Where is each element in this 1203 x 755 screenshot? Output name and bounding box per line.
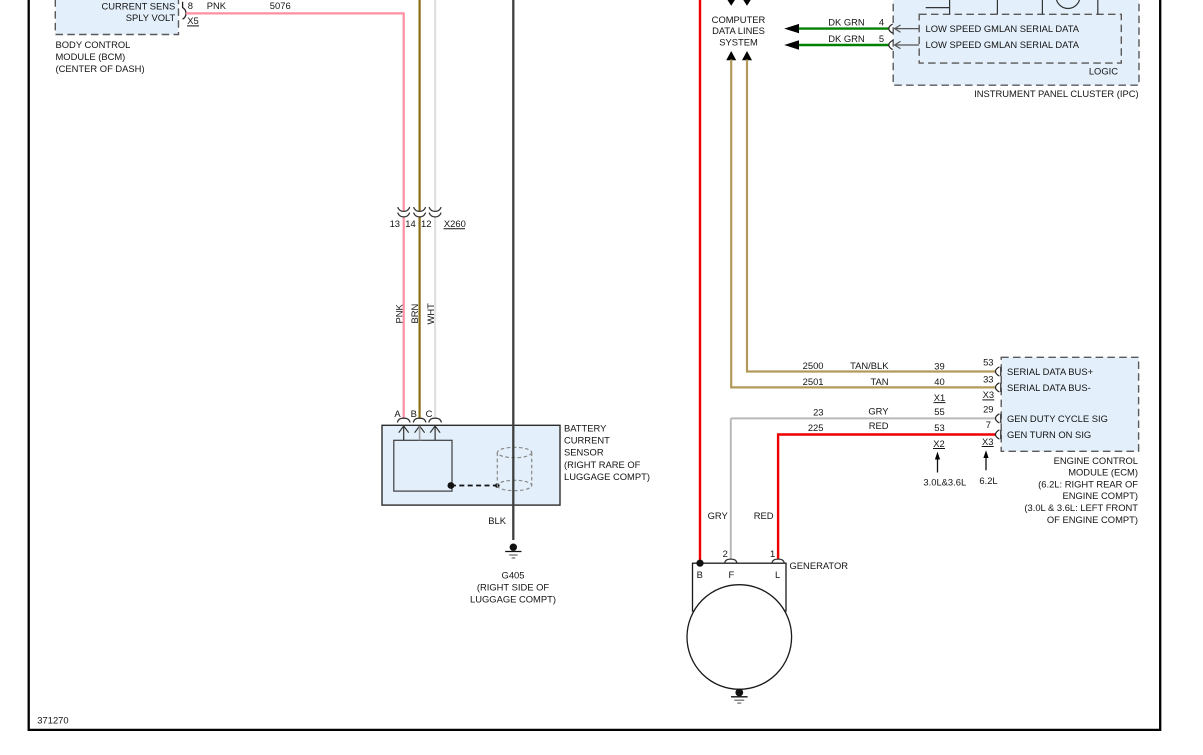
svg-text:7: 7 xyxy=(986,419,991,430)
svg-text:SERIAL DATA BUS+: SERIAL DATA BUS+ xyxy=(1007,366,1094,377)
svg-text:33: 33 xyxy=(983,374,993,385)
svg-text:TAN: TAN xyxy=(870,376,888,387)
svg-text:RED: RED xyxy=(754,510,774,521)
svg-text:LUGGAGE COMPT): LUGGAGE COMPT) xyxy=(470,594,556,605)
svg-text:LUGGAGE COMPT): LUGGAGE COMPT) xyxy=(564,471,650,482)
svg-text:BODY CONTROL: BODY CONTROL xyxy=(56,39,131,50)
svg-text:SPLY VOLT: SPLY VOLT xyxy=(126,12,176,23)
svg-text:39: 39 xyxy=(934,360,944,371)
svg-text:2500: 2500 xyxy=(803,360,824,371)
svg-text:SENSOR: SENSOR xyxy=(564,447,604,458)
svg-text:X2: X2 xyxy=(933,438,944,449)
svg-text:DATA LINES: DATA LINES xyxy=(712,25,765,36)
svg-text:5076: 5076 xyxy=(270,0,291,11)
svg-text:GEN DUTY CYCLE SIG: GEN DUTY CYCLE SIG xyxy=(1007,413,1108,424)
svg-text:BLK: BLK xyxy=(488,515,506,526)
svg-text:SERIAL DATA BUS-: SERIAL DATA BUS- xyxy=(1007,382,1091,393)
svg-text:40: 40 xyxy=(934,376,944,387)
svg-text:B: B xyxy=(697,569,703,580)
svg-text:53: 53 xyxy=(934,422,944,433)
svg-text:X1: X1 xyxy=(934,392,945,403)
svg-text:6.2L: 6.2L xyxy=(979,475,997,486)
svg-text:F: F xyxy=(729,569,735,580)
svg-text:B: B xyxy=(411,408,417,419)
svg-text:CURRENT: CURRENT xyxy=(564,435,610,446)
svg-text:GENERATOR: GENERATOR xyxy=(790,560,849,571)
svg-text:WHT: WHT xyxy=(425,303,436,325)
svg-text:X5: X5 xyxy=(187,15,198,26)
svg-text:4: 4 xyxy=(879,16,884,27)
svg-text:DK GRN: DK GRN xyxy=(828,16,864,27)
svg-text:BRN: BRN xyxy=(409,304,420,324)
svg-text:(6.2L: RIGHT REAR OF: (6.2L: RIGHT REAR OF xyxy=(1038,478,1138,489)
svg-text:2501: 2501 xyxy=(803,376,824,387)
svg-text:L: L xyxy=(775,569,780,580)
svg-text:225: 225 xyxy=(808,422,824,433)
svg-text:A: A xyxy=(394,408,401,419)
svg-text:(CENTER OF DASH): (CENTER OF DASH) xyxy=(56,63,145,74)
svg-text:(RIGHT RARE OF: (RIGHT RARE OF xyxy=(564,459,641,470)
svg-text:3.0L&3.6L: 3.0L&3.6L xyxy=(923,477,966,488)
svg-text:29: 29 xyxy=(983,404,993,415)
svg-text:5: 5 xyxy=(879,33,884,44)
svg-text:371270: 371270 xyxy=(37,714,68,725)
svg-text:OF ENGINE COMPT): OF ENGINE COMPT) xyxy=(1047,514,1138,525)
svg-text:GRY: GRY xyxy=(708,510,729,521)
svg-text:X3: X3 xyxy=(983,389,994,400)
svg-text:23: 23 xyxy=(813,407,823,418)
svg-text:CURRENT SENS: CURRENT SENS xyxy=(102,0,176,11)
svg-text:8: 8 xyxy=(188,0,193,11)
svg-text:G405: G405 xyxy=(502,569,525,580)
svg-text:BATTERY: BATTERY xyxy=(564,423,607,434)
svg-text:(RIGHT SIDE OF: (RIGHT SIDE OF xyxy=(477,582,549,593)
svg-text:LOW SPEED GMLAN SERIAL DATA: LOW SPEED GMLAN SERIAL DATA xyxy=(926,23,1080,34)
svg-text:1: 1 xyxy=(770,548,775,559)
svg-text:53: 53 xyxy=(983,357,993,368)
svg-text:SYSTEM: SYSTEM xyxy=(719,37,758,48)
svg-text:RED: RED xyxy=(869,420,889,431)
svg-text:MODULE (ECM): MODULE (ECM) xyxy=(1068,467,1138,478)
svg-text:LOW SPEED GMLAN SERIAL DATA: LOW SPEED GMLAN SERIAL DATA xyxy=(926,39,1080,50)
svg-text:55: 55 xyxy=(934,406,944,417)
svg-text:PNK: PNK xyxy=(394,303,405,323)
svg-text:COMPUTER: COMPUTER xyxy=(712,14,766,25)
svg-text:LOGIC: LOGIC xyxy=(1089,65,1118,76)
svg-text:13: 13 xyxy=(390,218,400,229)
svg-text:2: 2 xyxy=(723,548,728,559)
svg-text:GRY: GRY xyxy=(868,406,889,417)
svg-text:(3.0L & 3.6L: LEFT FRONT: (3.0L & 3.6L: LEFT FRONT xyxy=(1024,502,1138,513)
svg-text:X260: X260 xyxy=(444,218,466,229)
svg-text:14: 14 xyxy=(405,218,415,229)
svg-text:TAN/BLK: TAN/BLK xyxy=(850,360,889,371)
svg-text:INSTRUMENT PANEL CLUSTER (IPC): INSTRUMENT PANEL CLUSTER (IPC) xyxy=(974,88,1138,99)
svg-text:ENGINE COMPT): ENGINE COMPT) xyxy=(1062,490,1138,501)
svg-text:X3: X3 xyxy=(982,436,993,447)
svg-text:PNK: PNK xyxy=(207,0,227,11)
svg-text:MODULE (BCM): MODULE (BCM) xyxy=(56,51,126,62)
svg-text:GEN TURN ON SIG: GEN TURN ON SIG xyxy=(1007,429,1091,440)
svg-text:C: C xyxy=(426,408,433,419)
svg-text:DK GRN: DK GRN xyxy=(828,33,864,44)
svg-text:12: 12 xyxy=(421,218,431,229)
svg-text:ENGINE CONTROL: ENGINE CONTROL xyxy=(1054,455,1138,466)
